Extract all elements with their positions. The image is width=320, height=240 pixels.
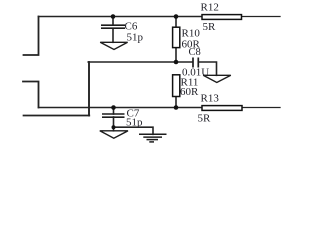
svg-text:R13: R13 [201,93,220,105]
wire R10 bottom [175,48,177,63]
svg-text:60R: 60R [180,86,199,98]
resistor R12 [202,15,242,20]
capacitor C6 [101,25,125,28]
wire top bus right [242,16,281,18]
wire mid bus [88,61,192,63]
wire C6 to ground [112,29,114,43]
wire bottom bus left [39,107,203,109]
earth ground (bars) [139,134,167,142]
svg-text:C8: C8 [189,47,201,58]
node junction dots [111,14,179,129]
svg-text:5R: 5R [198,113,212,125]
wire mid vertical [88,62,90,116]
wire R11 bottom [175,97,177,108]
wire top bus left [39,16,203,18]
svg-text:51p: 51p [126,117,143,129]
capacitor C8 [193,58,198,68]
wire C6 drop [112,17,114,26]
svg-text:5R: 5R [203,21,217,33]
wire C7 to ground [113,117,115,131]
wire input stub 3 [24,115,90,117]
wire bottom bus right [242,107,280,109]
wire C7 drop [113,108,115,115]
ground (triangle) right of C8 [203,75,231,82]
resistor R13 [202,106,242,111]
svg-text:R12: R12 [201,2,219,14]
ground (triangle) below C6 [100,42,127,49]
wire input stub 2 [23,82,39,108]
wire to earth ground [114,127,154,134]
ground (triangle) below C7 [100,131,128,138]
svg-text:51p: 51p [127,32,144,44]
capacitor C7 [102,114,125,117]
resistor R10 [173,27,180,47]
resistor R11 [173,75,180,97]
wire input stub 1 [24,17,39,56]
wire R10 top [175,17,177,27]
wire C8 right to ground [199,62,217,75]
